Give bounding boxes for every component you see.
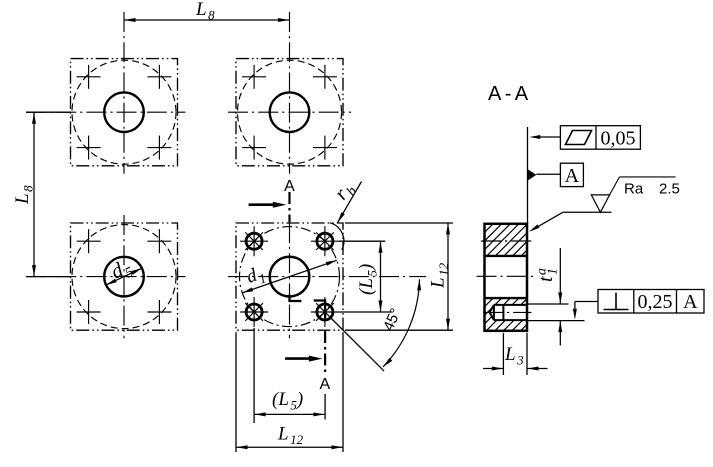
svg-text:(L5): (L5) <box>356 264 380 295</box>
svg-text:2.5: 2.5 <box>659 181 680 198</box>
svg-text:A: A <box>284 178 295 195</box>
svg-text:A: A <box>683 291 698 313</box>
svg-text:A-A: A-A <box>488 83 532 105</box>
svg-text:t1a: t1a <box>535 268 561 282</box>
svg-text:A: A <box>565 165 580 187</box>
svg-text:(L5): (L5) <box>272 389 303 413</box>
svg-text:0,05: 0,05 <box>601 128 636 150</box>
svg-text:0,25: 0,25 <box>638 291 673 313</box>
svg-text:Ra: Ra <box>624 181 644 198</box>
svg-text:A: A <box>319 376 330 393</box>
